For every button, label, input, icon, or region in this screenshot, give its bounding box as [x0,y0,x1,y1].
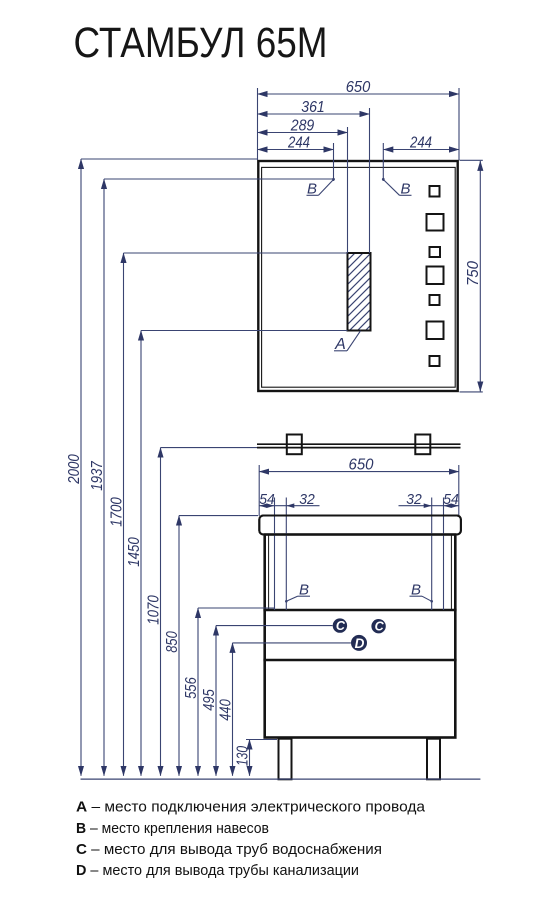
svg-text:2000: 2000 [66,454,83,484]
marker circle C2 [371,619,385,633]
label B upper right with leader [383,180,411,196]
svg-text:556: 556 [183,677,200,699]
svg-text:244: 244 [409,135,432,152]
floor line [81,778,481,780]
height dimension 2000 [81,159,258,776]
svg-text:1700: 1700 [109,497,126,527]
svg-text:495: 495 [201,689,218,711]
marker circle D [351,635,367,651]
extension lines crossing countertop [275,498,444,611]
shelf clip left [287,435,302,455]
svg-text:750: 750 [465,261,482,286]
svg-text:C: C [336,619,346,633]
svg-text:B: B [400,181,410,198]
svg-text:130: 130 [235,746,252,766]
label B lower left with leader [286,596,310,601]
svg-text:361: 361 [301,99,325,116]
svg-text:1450: 1450 [126,537,143,567]
svg-text:54: 54 [259,491,275,508]
vanity leg left [279,739,292,780]
svg-text:B: B [307,181,317,198]
height dimension 130 [246,740,277,776]
decorative square 3 [430,247,441,257]
shelf clip right [415,435,430,455]
decorative square 5 [430,295,440,305]
label A with leader [334,331,361,351]
dimension 750 right side [460,160,483,392]
niche bottom shelf [263,609,456,612]
svg-text:289: 289 [290,118,314,135]
svg-text:54: 54 [443,491,459,508]
drawer divider [263,659,456,662]
svg-text:A – место подключения электрич: A – место подключения электрического про… [76,799,426,816]
hatched area A (electrical outlet zone) [348,253,371,331]
label B upper left with leader [307,180,334,196]
dimension 289 [258,127,348,253]
vanity leg right [427,739,440,780]
svg-text:32: 32 [406,491,422,508]
svg-text:1070: 1070 [146,595,163,625]
dimension 244 left [258,143,334,181]
height dimension 1450 [141,331,348,776]
decorative square 1 [430,186,440,197]
svg-text:244: 244 [287,135,310,152]
wall shelf between cabinets [257,444,461,447]
dimension 361 [258,108,370,253]
mirror cabinet outer frame [258,161,457,391]
svg-text:B – место крепления навесов: B – место крепления навесов [76,820,269,837]
decorative square 2 [427,214,444,231]
decorative square 6 [427,322,444,340]
height dimension 1700 [124,253,348,776]
svg-text:D – место для вывода трубы кан: D – место для вывода трубы канализации [76,862,359,879]
dimension 54/32 left [259,505,319,507]
svg-text:A: A [334,336,346,353]
svg-text:D: D [355,636,365,651]
svg-text:B: B [299,581,309,598]
svg-text:850: 850 [164,631,181,653]
svg-text:650: 650 [346,79,371,96]
height dimension 556 [198,608,275,776]
svg-text:C – место для вывода труб водо: C – место для вывода труб водоснабжения [76,841,382,858]
svg-text:B: B [411,581,421,598]
niche inner side left [268,535,270,611]
height dimension 440 [233,643,351,776]
svg-text:C: C [375,620,385,634]
vanity body [265,535,456,738]
height dimension 1070 [161,448,258,776]
svg-text:СТАМБУЛ 65М: СТАМБУЛ 65М [74,19,328,67]
height dimension 495 [216,626,333,776]
dimension 650 top [258,88,460,160]
svg-text:650: 650 [349,457,374,474]
mirror cabinet inner frame line [262,167,456,387]
svg-text:440: 440 [218,699,235,721]
decorative square 4 [427,267,444,285]
height dimension 1937 [104,179,334,776]
svg-text:1937: 1937 [89,460,106,490]
label B lower right with leader [410,596,432,601]
decorative square 7 [430,356,440,366]
dimension 650 lower [259,465,459,516]
height dimension 850 [179,516,258,776]
dimension 244 right [383,143,459,181]
svg-text:32: 32 [299,491,315,508]
vanity countertop [259,516,461,535]
dimension 54/32 right [399,505,459,507]
niche inner side right [450,535,452,611]
countertop border overdraw [259,516,461,535]
marker circle C1 [333,618,347,632]
